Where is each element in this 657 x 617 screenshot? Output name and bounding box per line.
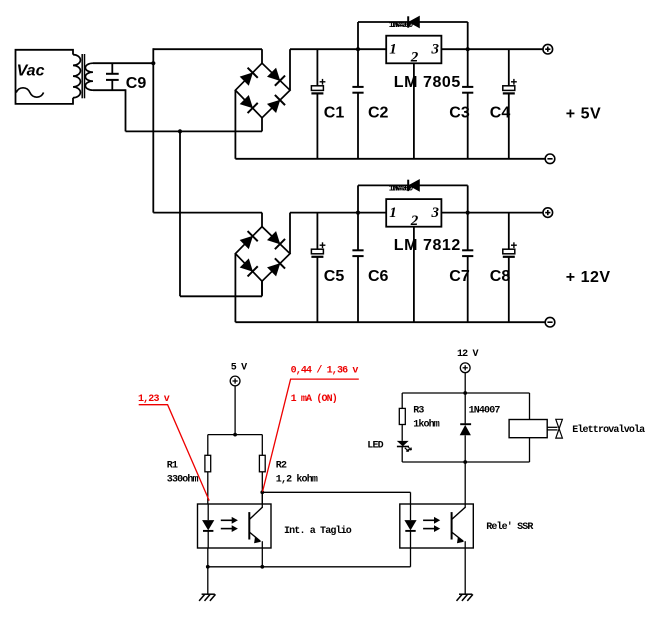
wire R2 bottom lead (261, 472, 263, 504)
transformer secondary winding (85, 63, 93, 90)
wire relay bottom rail (402, 461, 529, 463)
wire rail 5V regulator-in segment (290, 48, 386, 50)
wire flyback diode bottom lead (464, 435, 466, 462)
resistor R1 (205, 455, 211, 472)
node LED-cathode junction (206, 565, 210, 569)
wire R3 to LED (401, 425, 403, 441)
wire bridge top stub (261, 213, 263, 227)
capacitor C7 (467, 213, 469, 250)
svg-text:Elettrovalvola: Elettrovalvola (572, 424, 645, 436)
node R1/R2 top junction (233, 433, 237, 437)
svg-text:R1: R1 (167, 460, 178, 471)
svg-text:1 mA (ON): 1 mA (ON) (291, 393, 337, 405)
LM 7805 pin 2 wire (413, 63, 415, 159)
node junction bypass-left 12V (356, 211, 360, 215)
wire R1 top lead (207, 435, 209, 456)
U2 Rele SSR coupling arrows (423, 519, 434, 521)
wire rail 12V output segment (441, 212, 543, 214)
svg-text:LM 7812: LM 7812 (394, 237, 461, 254)
bridge diode bottom-right (267, 258, 285, 276)
node junction bypass-right 5V (466, 47, 470, 51)
wire secondary bottom (93, 89, 126, 91)
output terminal plus 12V (543, 208, 553, 218)
wire secondary top (93, 62, 153, 64)
wire bypass top (358, 21, 468, 23)
transformer core (81, 54, 83, 98)
node secondary top junction (151, 61, 155, 65)
bridge diode top-right (267, 231, 285, 249)
wire AC bottom horizontal bridge1 (126, 130, 263, 132)
diode 1N4007 bypass (409, 17, 419, 28)
svg-text:3: 3 (430, 42, 439, 58)
annotation leader line 1 (red) (139, 405, 210, 501)
capacitor C4 (508, 49, 510, 86)
capacitor C2 (357, 49, 359, 86)
svg-text:C1: C1 (324, 105, 345, 122)
svg-text:R2: R2 (276, 460, 287, 471)
ground (chassis) right (459, 593, 472, 595)
regulator LM 7812 (386, 199, 441, 227)
bridge rectifier 5V (235, 63, 290, 118)
node emitter junction (260, 565, 264, 569)
wire opto1 LED cathode lead (207, 548, 209, 567)
wire rail 5V left segment (153, 48, 262, 50)
capacitor C9 (111, 63, 113, 73)
optocoupler U2 Rele SSR box (400, 504, 474, 548)
node junction bypass-right 12V (466, 211, 470, 215)
wire bypass left riser (357, 22, 359, 49)
bridge diode top-left (240, 68, 258, 86)
optocoupler U1 Int. a Taglio box (198, 504, 272, 548)
capacitor C6 (357, 213, 359, 250)
svg-text:12 V: 12 V (457, 349, 478, 360)
wire opto2 emitter lead (464, 548, 466, 594)
wire flyback diode top lead (464, 393, 466, 424)
svg-text:C7: C7 (449, 268, 470, 285)
svg-text:+ 5V: + 5V (566, 105, 601, 122)
svg-text:C2: C2 (368, 105, 389, 122)
wire R1-R2 top bus (208, 434, 262, 436)
svg-text:1: 1 (389, 205, 397, 221)
wire rail 12V regulator-in segment (290, 212, 386, 214)
svg-text:+ 12V: + 12V (566, 269, 611, 286)
svg-text:330ohm: 330ohm (167, 474, 199, 486)
capacitor C1 (316, 49, 318, 86)
wire rail 12V left segment (153, 212, 262, 214)
node R2/opto junction (260, 490, 264, 494)
wire bridge DC+ riser (289, 49, 291, 90)
svg-text:R3: R3 (413, 406, 424, 417)
annotation leader line 2 (red) (263, 379, 359, 492)
wire bridge top stub (261, 49, 263, 63)
wire bridge DC- drop (234, 254, 236, 323)
wire coil bottom lead (529, 438, 531, 462)
diode D1 1N4007 flyback (460, 423, 471, 425)
svg-text:C3: C3 (449, 105, 470, 122)
LED D2 indicator (397, 441, 409, 446)
svg-text:Vac: Vac (17, 63, 45, 80)
svg-text:2: 2 (410, 213, 419, 229)
output terminal minus 12V (545, 317, 555, 327)
svg-text:2: 2 (410, 50, 419, 66)
wire common emitter bus (208, 566, 411, 568)
bridge rectifier 12V (235, 227, 290, 282)
wire opto2 LED cathode lead (410, 548, 412, 567)
LM 7812 pin 2 wire (413, 227, 415, 323)
wire R1 bottom lead (207, 472, 209, 504)
wire LED bottom lead (401, 447, 403, 463)
capacitor C3 (467, 49, 469, 86)
sine wave symbol (16, 88, 43, 97)
U2 Rele SSR LED (410, 504, 412, 520)
capacitor C8 (508, 213, 510, 250)
capacitor C5 (316, 213, 318, 250)
svg-text:3: 3 (430, 205, 439, 221)
resistor R2 (259, 455, 265, 472)
svg-text:1,2 kohm: 1,2 kohm (276, 474, 318, 486)
output terminal plus 5V (543, 44, 553, 54)
node relay bottom junction (463, 460, 467, 464)
wire AC upper vertical feed (152, 48, 154, 212)
node AC tap junction (178, 129, 182, 133)
U1 Int. a Taglio phototransistor (248, 512, 250, 539)
svg-text:LM 7805: LM 7805 (394, 74, 461, 91)
wire bypass right riser (467, 185, 469, 212)
U1 Int. a Taglio coupling arrows (221, 519, 232, 521)
svg-text:C5: C5 (324, 268, 345, 285)
transformer primary winding (73, 55, 80, 98)
wire bypass top (358, 184, 468, 186)
wire AC drop to bridge2 (179, 131, 181, 296)
wire relay top rail (402, 392, 529, 394)
svg-text:1kohm: 1kohm (413, 419, 440, 431)
AC source box (16, 50, 74, 104)
wire bottom rail 12V (235, 321, 545, 323)
bridge diode top-right (267, 68, 285, 86)
resistor R3 (399, 408, 405, 424)
svg-text:5 V: 5 V (231, 362, 247, 373)
diode 1N4007 bypass (409, 180, 419, 191)
svg-text:Rele' SSR: Rele' SSR (486, 521, 533, 533)
node junction bypass-left 5V (356, 47, 360, 51)
svg-text:1,23 v: 1,23 v (138, 394, 170, 405)
5V supply terminal (230, 376, 240, 386)
svg-text:C4: C4 (490, 105, 511, 122)
wire AC bottom horizontal bridge2 (180, 295, 262, 297)
wire bypass right riser (467, 22, 469, 49)
wire 12V feed (464, 373, 466, 393)
bridge diode bottom-left (240, 95, 258, 113)
svg-text:C6: C6 (368, 268, 389, 285)
svg-text:1N400: 1N400 (391, 21, 414, 30)
bridge diode bottom-left (240, 258, 258, 276)
wire bridge bottom stub (261, 281, 263, 295)
svg-text:1: 1 (389, 42, 397, 58)
relay coil / valve body K1 (509, 420, 547, 438)
wire bridge bottom stub (261, 118, 263, 132)
wire coil top lead (529, 393, 531, 420)
U1 Int. a Taglio LED (207, 504, 209, 520)
svg-text:LED: LED (367, 441, 383, 452)
output terminal minus 5V (545, 154, 555, 164)
wire rail 5V output segment (441, 48, 543, 50)
node relay top junction (463, 391, 467, 395)
wire R3 top lead (401, 393, 403, 408)
valve butterfly symbol (556, 419, 563, 428)
ground (chassis) left (207, 567, 209, 594)
wire opto1 collector lead (261, 492, 263, 504)
svg-text:C8: C8 (490, 268, 511, 285)
svg-text:1N400: 1N400 (391, 184, 414, 193)
bridge diode top-left (240, 231, 258, 249)
valve actuator shaft (547, 426, 557, 428)
svg-text:0,44 / 1,36 v: 0,44 / 1,36 v (291, 364, 359, 376)
wire opto1 emitter lead (261, 548, 263, 567)
wire bridge DC- drop (234, 90, 236, 159)
LED emission arrows (405, 448, 409, 452)
wire bridge2 bottom stub extension (261, 281, 263, 296)
wire bottom rail 5V (235, 158, 545, 160)
wire R2 top lead (261, 435, 263, 456)
12V supply terminal (460, 363, 470, 373)
svg-text:1N4007: 1N4007 (469, 406, 501, 417)
regulator LM 7805 (386, 36, 441, 64)
svg-text:C9: C9 (126, 75, 147, 92)
wire opto2 collector lead (464, 462, 466, 504)
wire AC lower drop (125, 89, 127, 131)
svg-text:Int. a Taglio: Int. a Taglio (284, 525, 352, 537)
U2 Rele SSR phototransistor (451, 512, 453, 539)
bridge diode bottom-right (267, 95, 285, 113)
wire bridge DC+ riser (289, 213, 291, 254)
wire bypass left riser (357, 185, 359, 212)
wire 5V feed (234, 386, 236, 435)
wire opto1-to-opto2 drive (262, 491, 410, 493)
